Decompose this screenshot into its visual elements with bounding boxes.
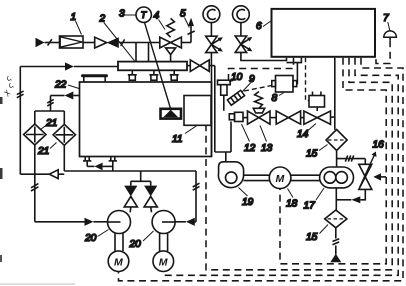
filter 21 left [24, 124, 46, 145]
wire: filter bottom line with check triangle [34, 145, 36, 174]
svg-text:20: 20 [129, 239, 142, 250]
svg-text:11: 11 [172, 134, 183, 145]
svg-text:M: M [159, 257, 168, 269]
wire: suction header to pumps [64, 170, 196, 172]
svg-text:18: 18 [286, 199, 298, 210]
check valve left [124, 186, 137, 197]
valve at manifold outlet [190, 60, 200, 72]
strainer 1 [60, 36, 84, 48]
wire: supply inlet arrow [36, 38, 45, 47]
thermometer 3 [136, 7, 151, 22]
nozzle 1 under manifold [131, 70, 133, 75]
svg-text:20: 20 [84, 233, 97, 244]
box 11 on tank right [184, 96, 211, 126]
wire: valve row [243, 117, 248, 119]
wire: to valve 14 [270, 117, 276, 119]
svg-text:8: 8 [272, 93, 278, 104]
check valve right [144, 186, 157, 197]
shaft pump19 to motor18 [244, 174, 270, 176]
svg-text:M: M [276, 173, 285, 185]
break marks on return drop [47, 102, 53, 106]
svg-text:3: 3 [119, 9, 125, 20]
control dashed line: bell 7 to box corner [376, 40, 390, 63]
wire: left pump suction drop [34, 174, 36, 222]
tank [80, 82, 212, 157]
left margin note glyphs [1, 74, 15, 98]
shaft pump20 left to motor [114, 233, 116, 251]
wire: check valve branch [140, 171, 142, 181]
wire: gear pump suction drop [335, 188, 337, 210]
middle valve in row [276, 111, 288, 124]
relief valve 4 with spring [167, 18, 175, 37]
wire: main line to relief valve 4 [119, 42, 160, 44]
svg-text:21: 21 [45, 118, 57, 129]
svg-text:21: 21 [37, 146, 49, 157]
svg-text:15: 15 [306, 232, 318, 243]
break marks on left drop [17, 94, 24, 98]
gauge cock 1 (three-way) [206, 36, 217, 44]
svg-text:19: 19 [242, 197, 254, 208]
heater element in tank [161, 109, 182, 119]
filler cap 22 [81, 74, 108, 77]
wire: tank right edge pipe down to pump 19 [211, 66, 213, 157]
wire: gauge 2 line to control box [241, 52, 287, 60]
control dashed line: box to left motor20 loop [119, 58, 404, 281]
wire: gauge 1 drop to tank line [210, 53, 212, 66]
gauge 2 (manometer) [233, 6, 250, 23]
component 9 (temperature sensor, inclined) [227, 90, 244, 105]
left edge scan artifacts [0, 97, 3, 104]
break tick on supply line [48, 39, 52, 45]
gear pump 17 [320, 167, 354, 188]
dashed link 9 to 8 [244, 86, 272, 92]
svg-text:15: 15 [306, 149, 318, 160]
filter 21 right [53, 124, 75, 145]
svg-text:14: 14 [297, 129, 309, 140]
motor M right [153, 251, 174, 272]
pipe connector down to manifold [135, 43, 137, 62]
gauge 1 (manometer) [203, 6, 220, 23]
control dashed line: box to motor18 loop [280, 58, 386, 264]
component 8 (electric actuator) [276, 76, 294, 93]
break marks on left pump drop [31, 187, 38, 191]
svg-text:10: 10 [231, 72, 243, 83]
tank drain fitting 2 [110, 157, 112, 161]
throttle valve 16 [359, 164, 372, 177]
wire: right pump suction with arrow [194, 221, 196, 223]
svg-text:12: 12 [244, 143, 256, 154]
gauge cock 2 (three-way) [235, 36, 246, 44]
control box 6 [272, 9, 376, 57]
wire: filter header [35, 110, 65, 112]
tank drain line with arrow [87, 165, 94, 167]
wire: return line into tank with arrow [73, 95, 79, 97]
wire: filter to gear pump with strainer ticks [336, 151, 338, 168]
flexible suction with inlet arrow [335, 228, 337, 239]
svg-text:M: M [114, 257, 123, 269]
control dashed line: box to component 10 [229, 58, 294, 80]
control dashed line: box to right motor20 loop [163, 58, 398, 275]
component 12 (orifice fitting) [235, 112, 244, 121]
component 10 (thermo pocket) [218, 80, 231, 85]
relief valve 13 with spring [255, 92, 263, 109]
nozzle 3 under manifold [173, 70, 175, 75]
valve 2 [95, 37, 107, 48]
break marks on right suction drop [193, 183, 200, 187]
pump 20 left [108, 211, 131, 234]
vent 5 riser with up arrow [190, 25, 192, 43]
wire: between strainer and valve 2 [83, 42, 95, 44]
wire: manifold inlet line with arrow [20, 66, 65, 68]
svg-text:13: 13 [261, 143, 273, 154]
motor M left [108, 251, 129, 272]
motor 18 [269, 167, 291, 189]
motor valve 14 [301, 117, 304, 119]
break tick after valve 2 [121, 39, 125, 46]
pump 20 right [152, 211, 175, 234]
wire: main line to vent riser [181, 42, 191, 44]
filter 15 lower [325, 210, 347, 228]
shaft motor18 to gear pump 17 [291, 174, 320, 176]
shaft pump20 right to motor [159, 233, 161, 251]
nozzle 2 under manifold [153, 70, 155, 75]
wire from component 8 to box [296, 63, 299, 84]
svg-text:16: 16 [373, 140, 385, 151]
alarm bell 7 [384, 31, 397, 37]
tank drain fitting 1 [84, 157, 86, 161]
wire: left drop line [19, 67, 21, 175]
svg-text:22: 22 [54, 80, 67, 91]
wire: valve 16 return loop with arrow [360, 189, 365, 199]
svg-text:17: 17 [304, 201, 316, 212]
control dashed line: box to box11 loop [206, 58, 392, 270]
wire: valve row to filter 15 drop / control box riser [331, 116, 335, 118]
centrifugal pump 19 [218, 162, 243, 188]
capillary from thermometer to heater [145, 22, 171, 108]
filter 15 upper [326, 130, 347, 151]
manifold (distributor) [118, 62, 187, 71]
svg-text:6: 6 [256, 21, 262, 32]
